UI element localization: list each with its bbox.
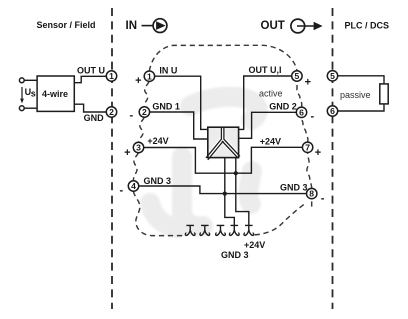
junction dot on GND 3 rail bbox=[223, 192, 227, 196]
svg-text:1: 1 bbox=[109, 71, 114, 81]
junction dot on +24V rail bbox=[234, 171, 238, 175]
polarity + at terminal 3 bbox=[124, 147, 130, 159]
label GND 3 left bbox=[144, 176, 172, 186]
module terminal 1 IN U bbox=[144, 71, 154, 81]
label OUT U bbox=[77, 65, 105, 75]
module terminal 6 GND 2 bbox=[296, 107, 306, 117]
wire: IN U (terminal 1 to isolator) bbox=[155, 76, 208, 129]
module terminal 2 GND 1 bbox=[139, 107, 149, 117]
T-BUS contact 4 bbox=[229, 225, 239, 235]
label active bbox=[259, 88, 283, 98]
svg-text:-: - bbox=[321, 192, 325, 204]
polarity + at terminal 5 bbox=[305, 76, 311, 88]
svg-text:+: + bbox=[124, 147, 130, 159]
svg-text:GND 1: GND 1 bbox=[152, 102, 180, 112]
T-BUS contact 1 bbox=[185, 225, 195, 235]
svg-text:7: 7 bbox=[305, 142, 310, 152]
PLC terminal 6 bbox=[327, 106, 337, 116]
svg-text:5: 5 bbox=[330, 71, 335, 81]
svg-text:3: 3 bbox=[136, 143, 141, 153]
label +24V right bbox=[260, 137, 281, 147]
svg-text:IN: IN bbox=[126, 20, 138, 32]
T-BUS contact 5 bbox=[244, 225, 254, 235]
T-BUS contact 3 bbox=[216, 225, 226, 235]
voltage source Us arrow bbox=[20, 87, 36, 103]
wire: supply top to 4-wire box bbox=[24, 79, 37, 81]
polarity + at terminal 7 bbox=[315, 147, 321, 159]
source 4-wire transmitter box bbox=[37, 76, 74, 111]
label IN U bbox=[159, 65, 177, 75]
svg-text:5: 5 bbox=[295, 71, 300, 81]
polarity - at terminal 2 bbox=[129, 110, 133, 122]
svg-text:+: + bbox=[305, 76, 311, 88]
svg-text:Sensor / Field: Sensor / Field bbox=[37, 20, 96, 30]
svg-text:OUT U: OUT U bbox=[77, 65, 105, 75]
svg-text:s: s bbox=[31, 89, 36, 99]
isolation amplifier U1 (3-port isolator) bbox=[206, 127, 240, 160]
svg-text:GND 3: GND 3 bbox=[144, 176, 172, 186]
svg-text:2: 2 bbox=[109, 107, 114, 117]
svg-text:+: + bbox=[135, 75, 141, 87]
label OUT U,I bbox=[249, 65, 282, 75]
polarity - at terminal 6 bbox=[310, 111, 314, 123]
svg-text:-: - bbox=[310, 111, 314, 123]
label GND bbox=[84, 113, 105, 123]
supply terminal bottom (open circle) bbox=[19, 106, 24, 111]
svg-text:OUT: OUT bbox=[261, 20, 285, 32]
svg-text:+24V: +24V bbox=[147, 136, 168, 146]
header label: IN bbox=[126, 20, 138, 32]
svg-text:4: 4 bbox=[131, 181, 136, 191]
boundary dashed line: PLC/DCS separator bbox=[332, 8, 334, 309]
header label: Sensor / Field bbox=[37, 20, 96, 30]
IN direction icon (arrow into circle) bbox=[142, 19, 167, 33]
label GND 2 bbox=[269, 102, 297, 112]
OUT direction icon (arrow out of circle) bbox=[291, 19, 323, 33]
polarity - at terminal 8 bbox=[321, 192, 325, 204]
label GND 3 right bbox=[280, 183, 308, 193]
svg-text:GND 2: GND 2 bbox=[269, 102, 297, 112]
label GND 3 bottom (bus contact) bbox=[221, 250, 249, 260]
svg-text:PLC / DCS: PLC / DCS bbox=[345, 21, 390, 31]
watermark logo (decorative background) bbox=[150, 97, 258, 228]
label +24V left bbox=[147, 136, 168, 146]
svg-text:2: 2 bbox=[142, 107, 147, 117]
wire: PLC terminal 5 to load resistor bbox=[338, 76, 384, 84]
module terminal 8 GND 3 bbox=[307, 188, 317, 198]
svg-text:active: active bbox=[259, 88, 283, 98]
svg-text:-: - bbox=[119, 185, 123, 197]
svg-text:4-wire: 4-wire bbox=[42, 89, 68, 99]
svg-text:6: 6 bbox=[330, 106, 335, 116]
header label: OUT bbox=[261, 20, 285, 32]
field terminal 2 bbox=[106, 107, 116, 117]
wire: GND 2 (isolator to terminal 6) bbox=[239, 112, 297, 138]
PLC terminal 5 bbox=[327, 71, 337, 81]
module terminal 4 GND 3 bbox=[128, 181, 138, 191]
svg-text:1: 1 bbox=[147, 71, 152, 81]
wire: +24V rail (terminal 3 to terminal 7) bbox=[144, 147, 303, 173]
svg-text:+24V: +24V bbox=[244, 240, 265, 250]
wire: GND 3 rail (terminal 4 to terminal 8) bbox=[139, 186, 307, 194]
svg-text:+: + bbox=[315, 147, 321, 159]
svg-text:GND 3: GND 3 bbox=[221, 250, 249, 260]
wire: OUT U,I (isolator to terminal 5) bbox=[239, 76, 292, 129]
wire: 4-wire GND to field terminal 2 bbox=[74, 104, 106, 112]
boundary dashed line: Sensor/Field separator bbox=[111, 8, 113, 309]
svg-text:8: 8 bbox=[309, 189, 314, 199]
module terminal 3 +24V bbox=[133, 142, 143, 152]
label GND 1 bbox=[152, 102, 180, 112]
label passive bbox=[340, 90, 371, 100]
wire: supply bottom to 4-wire box bbox=[24, 107, 37, 109]
module terminal 7 +24V bbox=[302, 142, 312, 152]
svg-text:-: - bbox=[129, 110, 133, 122]
svg-text:IN U: IN U bbox=[159, 65, 177, 75]
polarity + at terminal 1 bbox=[135, 75, 141, 87]
T-BUS contact 2 bbox=[200, 225, 210, 235]
wire: isolator supply drop to bus contact 5 (+24V) bbox=[236, 157, 249, 225]
wire: 4-wire OUT U to field terminal 1 bbox=[74, 76, 106, 82]
field terminal 1 bbox=[106, 71, 116, 81]
svg-text:6: 6 bbox=[299, 107, 304, 117]
wire: isolator supply drop to bus contact 4 (GND 3) bbox=[225, 157, 235, 225]
module terminal 5 OUT U,I bbox=[292, 71, 302, 81]
supply terminal top (open circle) bbox=[19, 78, 24, 83]
wire: GND 1 (terminal 2 to isolator) bbox=[150, 112, 208, 139]
svg-text:GND 3: GND 3 bbox=[280, 183, 308, 193]
svg-text:OUT U,I: OUT U,I bbox=[249, 65, 282, 75]
label +24V bottom (bus contact) bbox=[244, 240, 265, 250]
svg-text:+24V: +24V bbox=[260, 137, 281, 147]
svg-text:passive: passive bbox=[340, 90, 371, 100]
wire: load resistor to PLC terminal 6 bbox=[338, 104, 384, 111]
svg-text:GND: GND bbox=[84, 113, 105, 123]
resistor load (passive input) bbox=[380, 84, 388, 104]
module outline (dashed enclosure) bbox=[133, 45, 311, 235]
header label: PLC / DCS bbox=[345, 21, 390, 31]
polarity - at terminal 4 bbox=[119, 185, 123, 197]
